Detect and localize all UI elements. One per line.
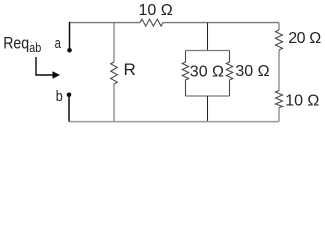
wire terminal a stub xyxy=(69,22,71,48)
wire 30-ohm box top xyxy=(186,50,230,52)
resistor 20 ohm (right upper) xyxy=(276,30,283,50)
svg-text:b: b xyxy=(56,88,63,105)
resistor 30 ohm right xyxy=(226,51,232,97)
resistor R (vertical) xyxy=(111,62,118,84)
wire center branch upper xyxy=(207,23,209,51)
svg-text:20 Ω: 20 Ω xyxy=(288,30,321,47)
resistor 10 ohm (top, horizontal) xyxy=(140,19,163,26)
svg-text:10 Ω: 10 Ω xyxy=(285,93,319,110)
wire center branch lower xyxy=(207,96,209,122)
wire R branch xyxy=(113,23,115,122)
svg-text:R: R xyxy=(124,60,136,79)
wire right branch xyxy=(278,23,280,122)
svg-text:a: a xyxy=(55,35,62,52)
svg-text:10 Ω: 10 Ω xyxy=(139,2,173,19)
node b dot xyxy=(67,93,72,98)
wire top rail xyxy=(69,22,279,24)
svg-text:30 Ω: 30 Ω xyxy=(190,63,224,80)
arrow Req_ab pointer xyxy=(36,57,53,75)
resistor 10 ohm (right lower) xyxy=(276,91,283,108)
svg-text:30 Ω: 30 Ω xyxy=(235,63,269,80)
node a dot xyxy=(67,48,72,53)
resistor 30 ohm left xyxy=(182,51,188,97)
wire terminal b stub xyxy=(68,97,70,122)
wire bottom rail xyxy=(69,121,279,123)
svg-text:Reqab: Reqab xyxy=(3,34,41,56)
wire 30-ohm box bottom xyxy=(186,95,230,97)
